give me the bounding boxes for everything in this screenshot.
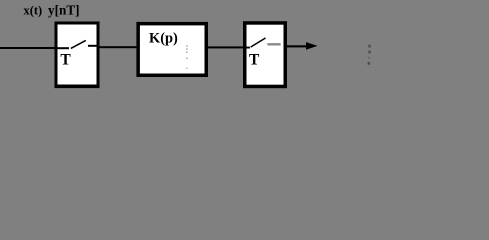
svg-text:x(t): x(t) bbox=[24, 4, 43, 18]
svg-text:T: T bbox=[60, 51, 71, 68]
svg-text:K(p): K(p) bbox=[149, 30, 178, 46]
svg-text:y[nT]: y[nT] bbox=[48, 3, 80, 18]
svg-text:T: T bbox=[249, 52, 260, 69]
